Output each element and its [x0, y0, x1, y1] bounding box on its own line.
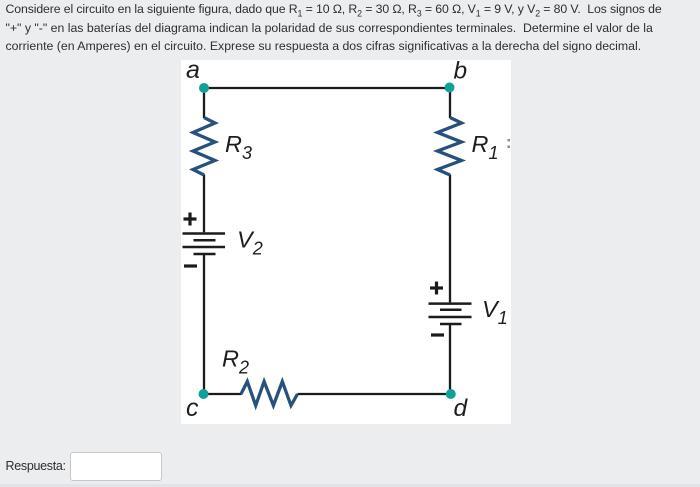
- svg-text:c: c: [186, 394, 199, 422]
- svg-text:R2: R2: [222, 345, 249, 377]
- svg-text:a: a: [186, 60, 200, 84]
- svg-text:d: d: [454, 395, 469, 422]
- svg-text:V1: V1: [482, 296, 508, 328]
- svg-text:V2: V2: [237, 227, 263, 259]
- svg-text:R1: R1: [472, 131, 499, 163]
- svg-text:R3: R3: [225, 131, 252, 163]
- svg-text:b: b: [454, 60, 468, 85]
